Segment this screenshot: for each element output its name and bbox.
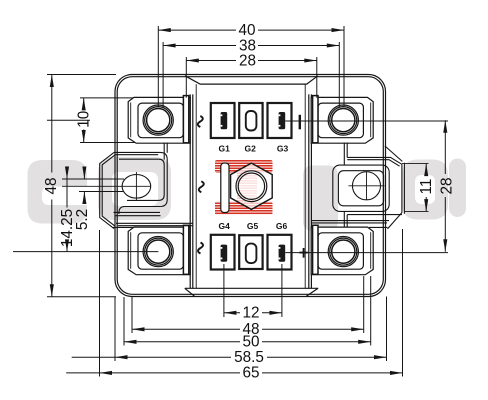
svg-text:G6: G6 (276, 221, 288, 231)
svg-text:12: 12 (242, 305, 259, 322)
svg-text:10: 10 (76, 111, 93, 128)
svg-text:48: 48 (43, 177, 60, 194)
svg-text:G5: G5 (247, 221, 259, 231)
svg-text:11: 11 (418, 179, 435, 195)
svg-text:65: 65 (242, 365, 259, 382)
svg-text:58.5: 58.5 (234, 349, 264, 366)
svg-text:28: 28 (239, 52, 256, 69)
svg-text:5.2: 5.2 (74, 209, 91, 230)
svg-text:G3: G3 (277, 143, 289, 153)
svg-text:G1: G1 (219, 143, 231, 153)
svg-text:28: 28 (439, 177, 456, 194)
svg-text:G4: G4 (219, 221, 231, 231)
svg-text:G2: G2 (245, 143, 257, 153)
